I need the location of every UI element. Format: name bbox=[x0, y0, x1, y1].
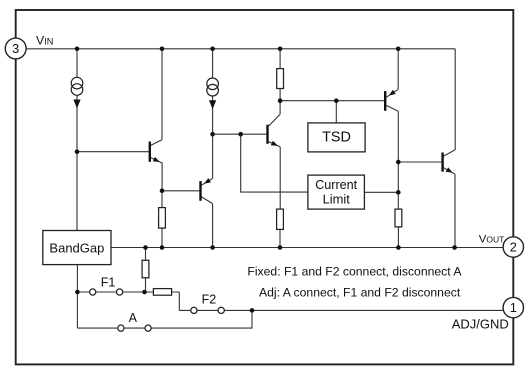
wire R2 bottom to node bbox=[279, 89, 281, 115]
svg-text:2: 2 bbox=[510, 240, 517, 255]
TSD block bbox=[308, 123, 365, 152]
wire Q5 collector riser bbox=[454, 49, 456, 150]
wire BandGap bottom drop bbox=[76, 265, 78, 292]
svg-text:TSD: TSD bbox=[322, 129, 351, 145]
junction Q1 base node bbox=[75, 149, 80, 154]
resistor R4 bbox=[395, 209, 402, 227]
wire R3 bottom to VOUT rail bbox=[279, 229, 281, 247]
wire node to R1 top bbox=[161, 191, 163, 208]
transistor Q1 (NPN) bbox=[149, 140, 163, 163]
wire Q5 emitter drop bbox=[454, 174, 456, 247]
svg-text:1: 1 bbox=[510, 300, 517, 315]
wire R4 bottom to VOUT rail bbox=[397, 227, 399, 248]
transistor Q2 (PNP) bbox=[199, 178, 212, 204]
svg-text:Current: Current bbox=[315, 178, 357, 192]
resistor R6 bbox=[153, 289, 171, 296]
junction rail-Q1c bbox=[160, 47, 165, 52]
wire node drop to R4 bbox=[397, 162, 399, 209]
svg-text:BandGap: BandGap bbox=[49, 240, 104, 255]
BandGap block bbox=[43, 231, 111, 265]
svg-text:VOUT: VOUT bbox=[479, 233, 505, 245]
svg-text:VIN: VIN bbox=[36, 33, 53, 47]
svg-text:3: 3 bbox=[12, 41, 19, 56]
junction ADJ node bbox=[250, 308, 255, 313]
wire Q1-emitter node to Q2 base bbox=[162, 190, 199, 192]
wire current-limit right wire bbox=[364, 191, 398, 193]
wire node to Q2 emitter bbox=[212, 134, 214, 178]
wire TSD node wire to Q4 base bbox=[280, 100, 384, 102]
svg-text:Adj: A connect, F1 and F2 disc: Adj: A connect, F1 and F2 disconnect bbox=[259, 286, 461, 300]
junction rail-R3 bbox=[278, 245, 283, 250]
wire A switch row bbox=[77, 310, 252, 328]
pin 2 (VOUT) bbox=[503, 237, 523, 257]
wire Q4 collector drop bbox=[397, 111, 399, 162]
junction Q4c node bbox=[396, 160, 401, 165]
pin 3 (VIN) bbox=[5, 38, 26, 59]
transistor Q4 (PNP) bbox=[384, 89, 398, 111]
transistor Q3 (NPN) bbox=[266, 114, 280, 147]
wire current-limit left wire bbox=[241, 134, 308, 192]
junction rail-CS2 bbox=[210, 47, 215, 52]
svg-text:Limit: Limit bbox=[323, 192, 351, 207]
svg-text:Fixed: F1 and F2 connect, disc: Fixed: F1 and F2 connect, disconnect A bbox=[247, 265, 462, 279]
resistor R1 bbox=[159, 208, 166, 229]
wire CS2 to Q3-base node bbox=[212, 96, 214, 134]
wire CS1 upper stub bbox=[76, 49, 78, 78]
current source I1 bbox=[71, 77, 83, 108]
wire Q4 emitter riser bbox=[397, 49, 399, 90]
wire R5 bottom to F1 node bbox=[145, 278, 147, 292]
current source I2 bbox=[207, 78, 219, 109]
junction F1 left node bbox=[75, 290, 80, 295]
wire F1 node drop to A row bbox=[76, 292, 78, 328]
junction CL-right node bbox=[396, 190, 401, 195]
wire Q1 base wire bbox=[77, 151, 149, 153]
resistor R5 bbox=[142, 260, 149, 278]
junction Q1 emitter node bbox=[160, 189, 165, 194]
junction rail-R1 bbox=[160, 245, 165, 250]
junction rail-R2 bbox=[278, 47, 283, 52]
junction rail-Q4e bbox=[396, 47, 401, 52]
wire rail to R5 top bbox=[145, 248, 147, 261]
switch F2 bbox=[191, 307, 225, 313]
transistor Q5 (NPN) bbox=[441, 150, 455, 174]
junction F1 right node bbox=[142, 290, 147, 295]
svg-text:ADJ/GND: ADJ/GND bbox=[452, 316, 509, 331]
wire Q2 collector drop bbox=[212, 204, 214, 248]
wire Q1 collector riser bbox=[161, 49, 163, 140]
pin 1 (ADJ/GND) bbox=[503, 297, 523, 317]
wire R1 bottom to VOUT rail bbox=[161, 228, 163, 247]
svg-text:F1: F1 bbox=[101, 276, 116, 290]
resistor R2 bbox=[277, 69, 284, 89]
wire Q3 base wire bbox=[213, 133, 267, 135]
wire F2 row to ADJ pin bbox=[179, 309, 505, 311]
wire F1 corner down to F2 row bbox=[178, 292, 180, 310]
resistor R3 bbox=[277, 209, 284, 229]
junction rail-R5 bbox=[143, 245, 148, 250]
junction R2 node bbox=[278, 98, 283, 103]
wire VOUT rail bbox=[111, 247, 505, 249]
junction rail-Q2c bbox=[210, 245, 215, 250]
wire Q3 emitter drop bbox=[279, 147, 281, 209]
switch A bbox=[118, 325, 151, 331]
wire Q1 emitter drop bbox=[161, 162, 163, 191]
wire VIN top rail bbox=[26, 48, 455, 50]
wire rail to R2 top bbox=[279, 49, 281, 69]
junction rail-Q5e bbox=[452, 245, 457, 250]
junction CL-left node bbox=[238, 132, 243, 137]
wire F1 switch row bbox=[77, 291, 179, 293]
wire Q5 base wire bbox=[398, 161, 441, 163]
Current Limit block bbox=[308, 175, 365, 209]
switch F1 bbox=[90, 289, 123, 295]
wire TSD top drop bbox=[335, 101, 337, 123]
junction CS2 node bbox=[210, 132, 215, 137]
wire CS1 to Q1-base node to BandGap top bbox=[76, 95, 78, 230]
wire CS2 upper stub bbox=[212, 49, 214, 78]
svg-text:A: A bbox=[129, 311, 138, 325]
junction rail-R4 bbox=[396, 245, 401, 250]
junction TSD node bbox=[334, 98, 339, 103]
svg-text:F2: F2 bbox=[202, 292, 217, 306]
junction rail-CS1 bbox=[75, 47, 80, 52]
